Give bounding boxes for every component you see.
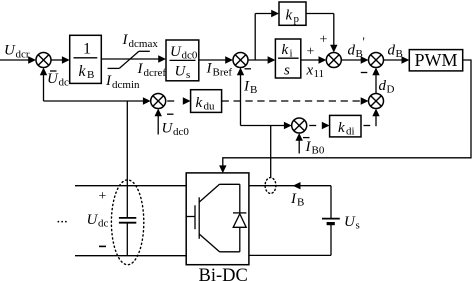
wire S4 to PWM, node dB label (384, 59, 403, 61)
svg-text:I: I (290, 191, 297, 207)
arrowhead into S1 bottom (40, 68, 47, 76)
label Bi-DC (199, 266, 248, 281)
wire S7 output up to S4, node dD label (375, 74, 377, 94)
summing junction S2 (I_Bref - I_B) (233, 53, 248, 68)
block kdu (191, 90, 222, 113)
arrowhead into 1/kB (62, 56, 70, 63)
svg-text:Bi-DC: Bi-DC (199, 266, 248, 281)
summing junction S4 (dB' - dD) (369, 53, 384, 68)
arrowhead into S5 (143, 97, 151, 104)
block PWM (409, 50, 462, 71)
summing junction S1 (U_dcr - U_dc) (36, 53, 51, 68)
node I_dcmin label (105, 73, 140, 91)
svg-text:11: 11 (314, 68, 325, 80)
minus sign at S1 (50, 70, 57, 72)
summing junction S5 (U_dc - U_dc0) (151, 94, 166, 109)
svg-text:du: du (204, 100, 216, 112)
summing junction S7 (dD sum) (369, 94, 384, 109)
svg-text:dc0: dc0 (173, 126, 189, 138)
svg-text:B: B (250, 84, 257, 96)
summing junction S3 (kp + ki/s) (326, 53, 341, 68)
svg-text:dcmin: dcmin (112, 79, 140, 91)
arrowhead into Bi-DC top (219, 165, 226, 173)
dc bus bottom rail (75, 255, 186, 257)
dashed wire kdu to S7 (222, 100, 362, 102)
block Udc0/Us (166, 40, 199, 81)
svg-text:k: k (286, 8, 293, 24)
block 1/kB (70, 35, 102, 83)
wire I_B horizontal to S6 (241, 125, 286, 127)
wire S3 to S4, node dB' label (341, 59, 361, 61)
svg-text:U: U (344, 214, 356, 230)
arrowhead into kdi (322, 122, 330, 129)
node U_dc label at S1 (47, 71, 69, 89)
svg-text:dc: dc (98, 217, 109, 229)
svg-text:U: U (47, 71, 59, 87)
svg-text:I: I (122, 32, 129, 48)
svg-text:U: U (87, 212, 99, 228)
wire kdi output up into S7 (375, 115, 377, 126)
wire U_dc feedback horizontal (44, 100, 145, 102)
svg-text:Bref: Bref (213, 67, 233, 79)
wire PWM output down to Bi-DC gate (223, 60, 471, 167)
wire branch up to kp (254, 14, 256, 61)
dotted ellipse around capacitor (111, 180, 143, 265)
wire S1 to block 1/kB (51, 59, 64, 61)
diode inside Bi-DC (233, 213, 246, 227)
arrowhead into S6 (284, 122, 292, 129)
svg-text:s: s (186, 69, 190, 81)
svg-text:+: + (307, 45, 315, 60)
transistor IGBT inside Bi-DC (186, 184, 240, 252)
wire I_B0 input arrow up into S6 (298, 140, 300, 154)
svg-text:B: B (87, 69, 94, 81)
current sensor dotted ellipse (265, 178, 276, 194)
svg-text:k: k (282, 42, 289, 58)
svg-text:d: d (379, 78, 387, 94)
svg-text:D: D (387, 84, 395, 96)
wire U_dcr input (0, 59, 30, 61)
svg-text:d: d (348, 43, 356, 59)
svg-text:s: s (284, 63, 290, 79)
svg-text:p: p (294, 13, 300, 25)
block ki/s (275, 39, 300, 79)
dashed wire S6 to kdi (309, 125, 316, 127)
plus sign dc bus (99, 189, 107, 204)
node U_dc label (bus) (87, 212, 109, 230)
arrowhead into S3 top (330, 45, 337, 53)
capacitor C plates (119, 218, 136, 256)
saturation limiter symbol (108, 51, 150, 68)
wire Udc0/Us to S2, node I_Bref label (199, 59, 226, 61)
svg-text:k: k (79, 63, 87, 80)
node U_dc0 label (162, 121, 190, 139)
svg-text:I: I (137, 61, 144, 77)
wire kp output to S3 top (306, 13, 334, 15)
svg-text:dc0: dc0 (182, 49, 198, 61)
svg-text:k: k (338, 120, 345, 136)
svg-text:B0: B0 (312, 144, 325, 156)
minus sign dc bus (99, 245, 106, 247)
plus sign kp input (320, 33, 328, 48)
svg-text:dcref: dcref (144, 67, 167, 79)
svg-text:dcr: dcr (16, 49, 30, 61)
block kp (279, 2, 306, 25)
svg-text:di: di (346, 125, 355, 137)
svg-text:I: I (305, 139, 312, 155)
wire 1/kB to Udc0/Us block (101, 58, 159, 60)
svg-text:k: k (196, 95, 203, 111)
node I_B label (battery side) (290, 191, 304, 209)
arrowhead into S4 (361, 56, 369, 63)
arrowhead into kdu (183, 97, 191, 104)
arrowhead into PWM (402, 56, 410, 63)
svg-text:': ' (363, 34, 365, 49)
svg-text:I: I (105, 73, 112, 89)
svg-text:s: s (356, 219, 360, 231)
block kdi (330, 115, 361, 137)
minus sign at S2 (245, 68, 252, 70)
svg-text:dcmax: dcmax (129, 38, 159, 50)
block Bi-DC converter box (186, 173, 249, 265)
svg-text:x: x (306, 63, 314, 79)
svg-text:d: d (388, 43, 396, 59)
wire U_dc sense line down to capacitor (126, 101, 128, 218)
arrowhead into S2 bottom (237, 68, 244, 76)
svg-text:U: U (4, 43, 16, 59)
label U_s (344, 214, 360, 232)
arrowhead into summing junction S1 (28, 56, 36, 63)
dc bus top rail (75, 185, 186, 187)
wire ki/s to S3, plus sign and node x11 label (301, 59, 320, 61)
summing junction S6 (I_B - I_B0) (292, 118, 307, 133)
node I_dcmax label (122, 32, 159, 50)
node I_B0 label (305, 139, 325, 157)
svg-text:PWM: PWM (415, 50, 458, 70)
svg-text:+: + (320, 33, 328, 48)
svg-text:U: U (170, 44, 182, 60)
svg-text:U: U (175, 64, 187, 80)
arrowhead I_B current direction (293, 182, 301, 189)
minus sign at S4 (361, 72, 368, 74)
arrowhead into S7 (361, 97, 369, 104)
svg-text:B: B (297, 196, 304, 208)
node I_dcref label (137, 61, 167, 79)
wire U_dc0 input arrow up into S5 (157, 115, 159, 135)
node U_dcr label (4, 43, 30, 61)
arrowhead into kp (271, 10, 279, 17)
svg-text:U: U (162, 121, 174, 137)
wire battery bottom to Bi-DC (249, 254, 331, 256)
svg-text:...: ... (57, 211, 68, 227)
svg-text:I: I (243, 78, 250, 94)
node I_B label (feedback) (243, 78, 257, 96)
wire U_dc feedback vertical to S1 (43, 74, 45, 101)
arrowhead into ki/s (268, 56, 276, 63)
wire Bi-DC right top to battery (249, 185, 331, 187)
svg-text:1: 1 (83, 41, 91, 58)
wire I_B feedback vertical to S2 (240, 74, 242, 126)
dashed wire kdi output (364, 125, 371, 127)
dashed wire S5 to kdu (167, 100, 174, 102)
svg-text:dc: dc (59, 77, 70, 89)
minus sign at S6 (303, 137, 310, 139)
wire S2 to ki/s block (248, 59, 269, 61)
wire I_B from current sensor up (270, 126, 272, 179)
node dots ... (57, 211, 68, 227)
arrowhead into S2 (225, 56, 233, 63)
svg-text:+: + (99, 189, 107, 204)
arrowhead into S3 (319, 56, 327, 63)
minus sign at S5 (167, 113, 174, 115)
battery U_s (322, 186, 340, 256)
svg-text:I: I (206, 61, 213, 77)
arrowhead into Udc0/Us (158, 55, 166, 62)
